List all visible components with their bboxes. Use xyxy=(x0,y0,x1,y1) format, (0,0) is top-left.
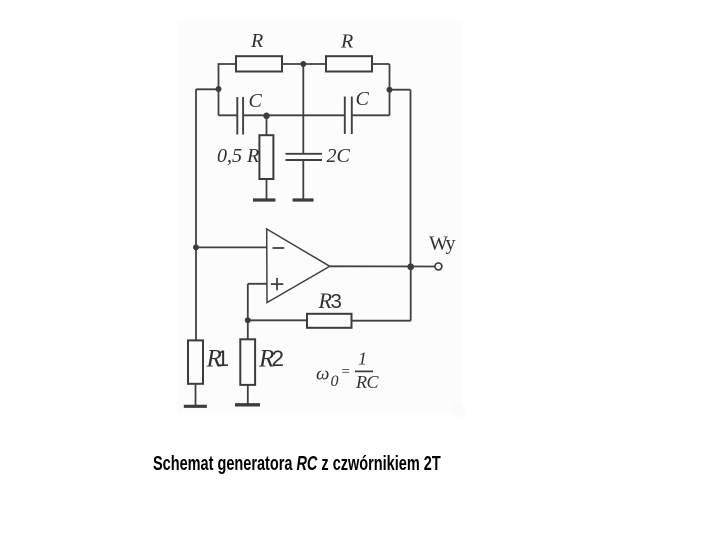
wire: below R2 to ground xyxy=(247,385,249,404)
scanned figure background xyxy=(178,21,462,413)
wire: below R1 to ground xyxy=(195,384,197,405)
wire: branch from right node to right rail xyxy=(390,89,411,91)
svg-text:0: 0 xyxy=(331,373,339,390)
op-amp plus sign xyxy=(271,278,284,290)
wire: feedback node to R3 xyxy=(248,319,307,321)
wire: inverting input xyxy=(196,246,267,248)
node: feedback junction xyxy=(245,317,251,323)
capacitor 2C plates xyxy=(286,154,323,160)
wire: branch from left node to left rail xyxy=(196,88,219,90)
op-amp minus sign xyxy=(273,247,285,249)
wire: right lead of top-right resistor xyxy=(372,63,390,65)
scan smudge artifact bottom-right xyxy=(452,403,466,417)
ground (below R1) xyxy=(184,405,207,408)
svg-text:RC: RC xyxy=(355,372,379,392)
svg-text:0,5 R: 0,5 R xyxy=(217,145,259,167)
resistor 0.5R body xyxy=(259,135,273,179)
ground (below 0.5R) xyxy=(253,198,276,201)
resistor R (top-right) body xyxy=(326,56,372,71)
op-amp U1 triangle xyxy=(267,229,330,303)
svg-text:2: 2 xyxy=(272,346,285,371)
resistor R3 body xyxy=(307,314,352,328)
svg-text:C: C xyxy=(356,88,370,110)
node: junction between two R resistors xyxy=(300,61,306,67)
wire: capacitor row, left segment xyxy=(219,114,237,116)
wire: left vertical from resistor row down to capacitor row xyxy=(218,64,220,115)
svg-text:Wy: Wy xyxy=(429,233,455,255)
node: output junction xyxy=(407,263,414,270)
wire: non-inverting input horizontal xyxy=(248,283,267,285)
capacitor C (left) plates xyxy=(237,97,243,135)
wire: right rail down to output node xyxy=(410,90,412,267)
svg-text:1: 1 xyxy=(358,349,367,369)
ground (below R2) xyxy=(235,403,260,406)
wire: from capacitor-row node down to 0.5R xyxy=(266,116,268,135)
resistor R (top-left) body xyxy=(236,56,282,71)
wire: below 2C down to ground xyxy=(302,161,304,199)
node: inverting input junction xyxy=(193,244,199,250)
svg-text:1: 1 xyxy=(217,346,230,371)
wire: centre column from resistor junction down to 2C xyxy=(302,64,304,153)
svg-text:3: 3 xyxy=(331,290,342,313)
wire: left rail continues down to R1 xyxy=(195,247,197,340)
wire: feedback node down to R2 xyxy=(247,320,249,339)
ground (below 2C) xyxy=(293,198,314,201)
formula omega0 = 1/RC xyxy=(316,349,379,393)
caption text xyxy=(153,453,441,476)
wire: below 0.5R down to ground xyxy=(266,179,268,199)
wire: R3 to right rail corner xyxy=(352,320,411,322)
wire: between the two top resistors xyxy=(282,63,326,65)
wire: op-amp output to terminal xyxy=(330,265,435,267)
wire: right vertical from resistor row down to capacitor row xyxy=(389,64,391,115)
wire: feedback vertical up to output node xyxy=(410,267,412,321)
svg-text:R: R xyxy=(250,30,263,52)
node: left twin-T node xyxy=(216,86,222,92)
node: capacitor row junction (0.5R top) xyxy=(263,113,270,120)
svg-text:=: = xyxy=(341,364,351,380)
svg-text:2C: 2C xyxy=(327,145,351,167)
output terminal circle Wy xyxy=(435,263,442,270)
node: right twin-T node xyxy=(387,87,393,93)
svg-text:R: R xyxy=(340,31,353,53)
wire: left lead of top-left resistor R xyxy=(218,63,237,65)
wire: capacitor row, middle segment xyxy=(244,114,344,116)
wire: capacitor row, right segment xyxy=(353,114,390,116)
svg-text:ω: ω xyxy=(316,364,329,385)
resistor R2 body xyxy=(240,339,255,385)
wire: non-inverting input vertical down to feedback node xyxy=(247,284,249,321)
wire: left rail down to inverting input xyxy=(195,89,197,247)
resistor R1 body xyxy=(188,340,203,383)
svg-text:C: C xyxy=(249,90,263,112)
capacitor C (right) plates xyxy=(345,97,352,135)
